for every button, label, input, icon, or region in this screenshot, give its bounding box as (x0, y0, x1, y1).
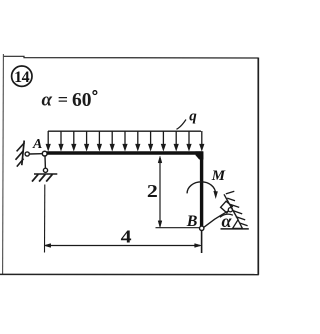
lower pin (43, 168, 47, 172)
inclined wall line (224, 194, 238, 219)
svg-text:M: M (211, 168, 226, 184)
incline hatch 4 (236, 217, 245, 220)
pin on wall (25, 152, 29, 156)
pin B (200, 226, 204, 230)
label B (186, 213, 198, 230)
incline foot triangle (233, 220, 243, 229)
support bracket square (221, 201, 233, 213)
svg-text:q: q (189, 108, 197, 124)
label M (211, 168, 226, 184)
extension line left (44, 185, 46, 253)
wall hatch 3 (17, 159, 24, 167)
svg-text:α: α (42, 90, 53, 111)
incline hatch 1 (227, 198, 235, 201)
pin A (42, 151, 47, 156)
beam AB horizontal (47, 151, 203, 154)
frame border right (257, 58, 259, 275)
label 2 (147, 182, 158, 201)
label A (32, 137, 42, 152)
svg-text:α: α (222, 211, 233, 231)
load arrows (46, 131, 204, 151)
svg-text:14: 14 (14, 69, 30, 86)
svg-text:4: 4 (121, 228, 132, 247)
label alpha = 60 deg (42, 90, 97, 112)
frame border bottom (0, 273, 259, 275)
link rod from B to inclined support (204, 211, 228, 227)
svg-text:60: 60 (72, 90, 92, 111)
label q with leader (177, 108, 198, 129)
incline top hatch (226, 191, 235, 194)
distributed load top line (48, 130, 201, 132)
svg-text:A: A (32, 137, 42, 152)
beam vertical segment to B (200, 152, 203, 227)
moment M arc with arrow (187, 182, 217, 198)
svg-text:=: = (58, 90, 68, 110)
vertical link rod below A (44, 156, 46, 168)
wall at left support A (22, 141, 24, 166)
incline hatch 3 (233, 211, 242, 214)
frame border top (4, 56, 259, 58)
wall hatch 1 (17, 143, 25, 152)
incline base line (221, 228, 249, 230)
label alpha at support (222, 211, 233, 231)
ground hatch 2 (39, 174, 45, 181)
horizontal link rod (30, 153, 43, 155)
problem number 14 circle (12, 66, 32, 86)
label 4 (121, 228, 132, 247)
angle alpha arc (220, 214, 233, 217)
incline hatch 5 (239, 223, 248, 226)
beam corner fill (196, 151, 204, 159)
dimension 4 horizontal line (44, 244, 201, 248)
support pin (228, 208, 232, 212)
ground hatch 3 (46, 174, 52, 181)
incline hatch 2 (230, 204, 239, 207)
ground hatch 1 (32, 174, 38, 181)
ground line (34, 173, 57, 175)
svg-text:2: 2 (147, 182, 158, 201)
extension line right (201, 231, 203, 253)
frame border left (2, 54, 5, 274)
dimension 2 vertical line (158, 156, 162, 227)
extension line at B level (156, 227, 200, 229)
wall hatch 2 (16, 151, 24, 160)
